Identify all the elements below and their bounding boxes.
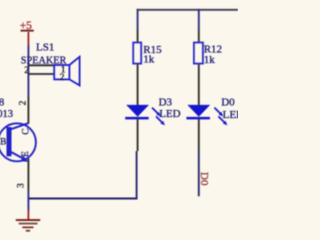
svg-text:LED: LED bbox=[223, 109, 238, 121]
svg-text:9013: 9013 bbox=[0, 109, 13, 120]
svg-text:1k: 1k bbox=[204, 54, 216, 66]
svg-text:1k: 1k bbox=[143, 53, 155, 65]
svg-text:3: 3 bbox=[16, 183, 26, 188]
svg-text:Q8: Q8 bbox=[0, 97, 5, 109]
svg-text:D3: D3 bbox=[159, 96, 173, 108]
svg-text:E: E bbox=[21, 151, 31, 157]
svg-text:2: 2 bbox=[24, 66, 29, 76]
svg-text:LED: LED bbox=[159, 108, 180, 120]
svg-text:D0: D0 bbox=[198, 172, 210, 186]
svg-text:C: C bbox=[22, 128, 32, 134]
svg-text:2: 2 bbox=[60, 73, 65, 83]
svg-text:2: 2 bbox=[19, 100, 29, 105]
svg-text:LS1: LS1 bbox=[36, 42, 54, 54]
svg-text:D0: D0 bbox=[221, 97, 235, 109]
svg-text:B: B bbox=[0, 138, 6, 148]
